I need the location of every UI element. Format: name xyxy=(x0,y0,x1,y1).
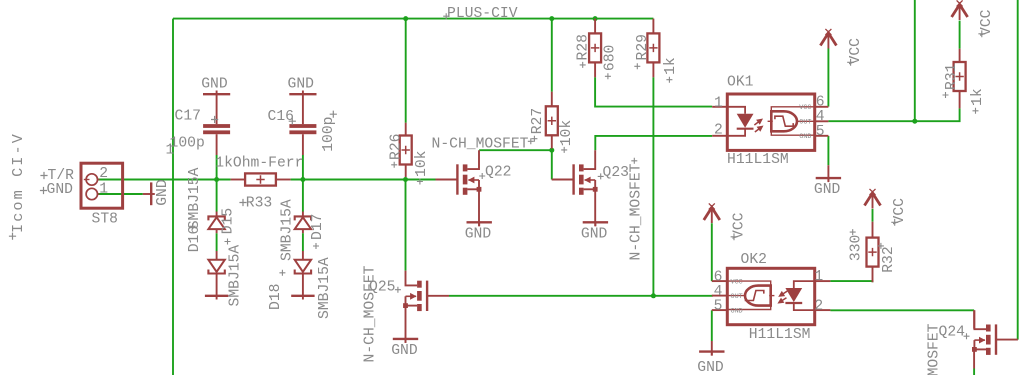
wire PLUS-CIV left vertical xyxy=(172,19,174,375)
pin stubs OK1 left xyxy=(712,106,727,108)
resistor R26 xyxy=(400,136,412,165)
wire between D18 and D17 xyxy=(302,233,304,251)
svg-text:OK1: OK1 xyxy=(727,75,754,91)
resistor R31 xyxy=(954,62,966,91)
svg-text:OUT: OUT xyxy=(799,119,811,127)
svg-text:ST8: ST8 xyxy=(92,212,118,228)
wire OK2 pin2 to Q24 xyxy=(830,309,974,311)
power VCC at R31 xyxy=(959,5,961,21)
svg-text:Q22: Q22 xyxy=(485,164,511,180)
wire signal line right of R33 xyxy=(291,179,436,181)
svg-text:GND: GND xyxy=(288,77,315,93)
power VCC at OK1 pin6 xyxy=(827,33,829,49)
resistor R29 xyxy=(647,33,659,62)
svg-text:Q23: Q23 xyxy=(603,165,629,181)
resistor R33 (ferrite) xyxy=(245,173,276,185)
svg-text:GND: GND xyxy=(799,133,811,141)
svg-text:SMBJ15A: SMBJ15A xyxy=(227,245,243,307)
transistor Q23 xyxy=(552,179,574,181)
svg-text:N-CH_MOSFET: N-CH_MOSFET xyxy=(363,265,379,362)
wire R32 top to VCC xyxy=(872,209,874,222)
diode D16 and D15 pair xyxy=(216,212,218,218)
wire signal to Q25 drain xyxy=(405,180,407,271)
origin cross C17 xyxy=(211,116,218,123)
wire signal line from ST8 pin2 xyxy=(98,179,231,181)
svg-text:GND: GND xyxy=(731,307,743,315)
transistor Q24 xyxy=(996,339,1018,341)
svg-text:R32: R32 xyxy=(881,246,897,272)
wire Q24 source down xyxy=(973,369,975,375)
resistor R32 xyxy=(867,238,879,267)
wire C16/D18 column xyxy=(302,155,304,212)
svg-text:N-CH_MOSFET: N-CH_MOSFET xyxy=(629,163,645,260)
wire OK1 OUT line xyxy=(828,108,959,121)
wire PLUS-CIV to R26 xyxy=(405,19,407,123)
svg-text:H11L1SM: H11L1SM xyxy=(749,327,811,343)
junction OUT line xyxy=(912,119,917,124)
svg-text:D15: D15 xyxy=(221,208,237,234)
svg-text:PLUS-CIV: PLUS-CIV xyxy=(447,6,518,22)
ground at OK2 pin5 xyxy=(711,341,713,356)
wire OK1 pin6 to VCC xyxy=(827,48,829,106)
junction R27/Q22 drain/Q23 gate xyxy=(549,148,554,153)
svg-text:R29: R29 xyxy=(635,34,651,60)
svg-text:R31: R31 xyxy=(944,63,960,90)
svg-text:C17: C17 xyxy=(175,108,201,124)
wire vertical into OUT line xyxy=(914,0,916,121)
svg-text:Q24: Q24 xyxy=(939,324,966,340)
op-amp/optocoupler OK1 xyxy=(727,94,814,150)
svg-text:GND: GND xyxy=(581,226,608,242)
transistor Q22 xyxy=(436,179,458,181)
wire Q23 drain to OK1 pin2 xyxy=(595,136,712,150)
svg-text:100p: 100p xyxy=(321,117,337,152)
svg-text:1: 1 xyxy=(714,95,723,111)
power VCC at R32 xyxy=(872,193,874,209)
svg-text:680: 680 xyxy=(603,45,619,71)
ground at Q25 source xyxy=(405,306,407,343)
wire ST8 pin1 to GND xyxy=(98,193,143,195)
svg-text:R27: R27 xyxy=(530,108,546,134)
wire OK2 pin6 to VCC xyxy=(711,223,713,281)
junction on signal at C17 column xyxy=(214,177,219,182)
svg-text:1k: 1k xyxy=(663,57,679,75)
junction Q25 gate line / R29 branch xyxy=(651,293,656,298)
svg-text:100p: 100p xyxy=(170,135,205,151)
wire right edge vertical to Q24 gate xyxy=(1017,0,1019,340)
svg-text:2: 2 xyxy=(814,299,823,315)
junction PLUS-CIV/R28 xyxy=(593,16,598,21)
pin stubs OK1 right xyxy=(815,106,829,108)
svg-text:H11L1SM: H11L1SM xyxy=(727,152,789,168)
svg-text:R26: R26 xyxy=(389,134,405,160)
ground at OK1 pin5 xyxy=(827,165,829,181)
svg-text:GND: GND xyxy=(465,226,492,242)
svg-text:GND: GND xyxy=(201,77,228,93)
wire Q24 source red xyxy=(973,349,975,368)
wire OK2 pin1 to R32 xyxy=(830,281,872,282)
svg-text:D16: D16 xyxy=(187,226,203,252)
svg-text:VCC: VCC xyxy=(799,104,811,112)
svg-text:N-CH_MOSFET: N-CH_MOSFET xyxy=(926,323,942,375)
svg-text:N-CH_MOSFET: N-CH_MOSFET xyxy=(432,137,529,153)
ground at Q23 source xyxy=(594,189,596,226)
svg-text:OUT: OUT xyxy=(731,293,743,301)
svg-text:VCC: VCC xyxy=(731,278,743,286)
svg-text:R28: R28 xyxy=(576,34,592,60)
resistor R27 xyxy=(546,106,558,135)
svg-text:330: 330 xyxy=(849,235,865,261)
resistor R28 xyxy=(589,33,601,62)
svg-text:SMBJ15A: SMBJ15A xyxy=(279,199,295,261)
connector ST8 xyxy=(81,163,123,208)
svg-text:2: 2 xyxy=(714,123,723,139)
wire R27 bottom node xyxy=(479,150,552,179)
svg-text:OK2: OK2 xyxy=(741,252,767,268)
power VCC at OK2 pin6 xyxy=(711,208,713,224)
svg-text:D17: D17 xyxy=(310,214,326,240)
svg-text:GND: GND xyxy=(47,182,74,198)
junction PLUS-CIV/R27 xyxy=(549,16,554,21)
op-amp/optocoupler OK2 xyxy=(727,268,814,324)
svg-text:GND: GND xyxy=(697,360,724,375)
svg-text:GND: GND xyxy=(814,182,841,198)
pin stubs OK2 right xyxy=(815,280,831,282)
junction signal/R26/Q25 xyxy=(403,177,408,182)
wire R31 top to VCC xyxy=(959,21,961,49)
svg-text:1kOhm-Ferr: 1kOhm-Ferr xyxy=(215,156,303,172)
junction on signal at C16 column xyxy=(300,177,305,182)
svg-text:SMBJ15A: SMBJ15A xyxy=(317,257,333,319)
svg-text:10k: 10k xyxy=(559,120,575,147)
svg-text:4: 4 xyxy=(714,284,723,300)
svg-text:GND: GND xyxy=(391,343,418,359)
wire Q25 gate line xyxy=(449,295,713,297)
svg-text:10k: 10k xyxy=(414,150,430,177)
svg-text:R33: R33 xyxy=(246,196,272,212)
svg-text:1k: 1k xyxy=(970,88,986,106)
svg-text:Icom CI-V: Icom CI-V xyxy=(9,132,27,233)
wire C17/D16 column xyxy=(216,155,218,212)
wire R29 bottom down right side xyxy=(652,77,654,295)
svg-text:C16: C16 xyxy=(268,109,294,125)
junction PLUS-CIV/R26 xyxy=(403,16,408,21)
wire between D16 and D15 xyxy=(216,233,218,251)
svg-text:2: 2 xyxy=(99,166,108,182)
ground at ST8 pin1 xyxy=(143,193,155,195)
svg-text:5: 5 xyxy=(816,124,825,140)
svg-text:D18: D18 xyxy=(268,284,284,310)
wire OK2 pin5 to GND xyxy=(711,310,713,341)
wire PLUS-CIV to R27 xyxy=(551,19,553,92)
svg-text:1: 1 xyxy=(814,269,823,285)
wire PLUS-CIV top rail xyxy=(173,18,653,20)
wire R28 bottom to OK1 pin1 xyxy=(595,77,712,106)
wire OK1 pin5 to GND xyxy=(827,136,829,165)
svg-text:1: 1 xyxy=(99,182,108,198)
ground at Q22 source xyxy=(478,189,480,226)
svg-text:SMBJ15A: SMBJ15A xyxy=(187,167,203,229)
transistor Q24 drain stub xyxy=(973,310,975,328)
svg-text:4: 4 xyxy=(816,109,825,125)
svg-text:5: 5 xyxy=(714,299,723,315)
svg-text:GND: GND xyxy=(155,179,171,206)
diode D18 and D17 pair xyxy=(302,212,304,218)
transistor Q25 xyxy=(427,295,449,297)
pin stubs OK2 left xyxy=(712,280,728,282)
